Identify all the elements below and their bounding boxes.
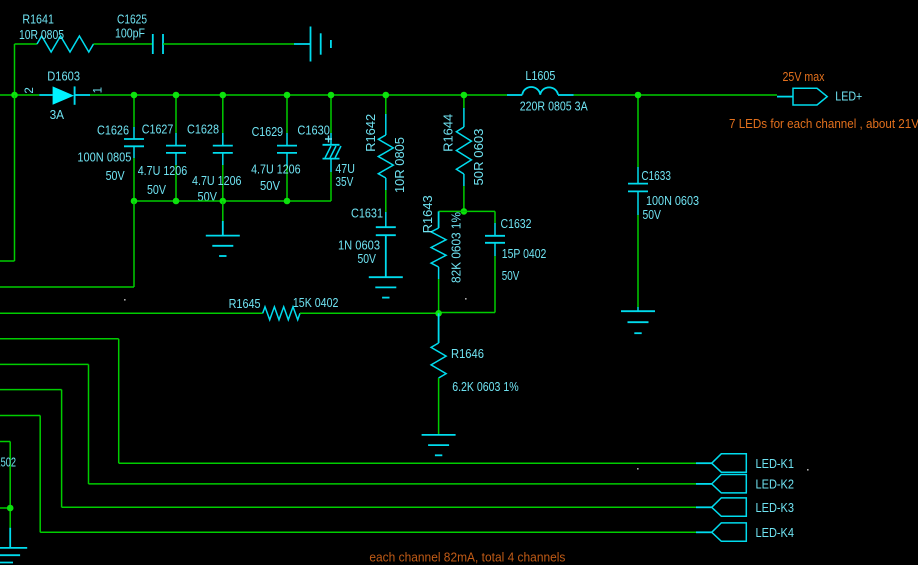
ground under C1633 [621,310,655,312]
resistor R1644 lower lead [463,174,465,186]
capacitor C1633 lower lead [637,191,639,215]
wire: channel 1 vertical [118,339,120,463]
capacitor C1631 lower lead [385,235,387,277]
svg-text:R1645: R1645 [229,297,261,311]
node bus C1633 [635,92,642,99]
svg-text:3A: 3A [50,108,65,122]
capacitor C1633 upper lead [637,95,639,167]
wire: R1641 left lead [15,43,38,45]
svg-text:82K 0603 1%: 82K 0603 1% [449,212,463,283]
svg-text:LED-K4: LED-K4 [756,525,795,540]
wire: node to R1643 [439,210,464,212]
wire: ground net vertical [9,442,11,528]
wire: main bus left edge to diode [0,94,39,96]
node bus C1627 [173,92,180,99]
svg-text:50V: 50V [260,179,281,193]
diode D1603 anode lead [39,94,52,96]
svg-text:220R 0805 3A: 220R 0805 3A [520,99,589,113]
artifact speck 1 [124,299,126,301]
resistor R1646 lower lead [438,378,440,435]
ground (sideways) for snubber [294,43,311,45]
wire: stub from edge to ground node [0,507,10,509]
wire: node to C1632 [464,210,495,212]
node bus C1626 [131,92,138,99]
wire: R1645 to node [300,312,439,314]
wire: channel 2 to port LED-K2 [89,483,697,485]
port LED+ lead [777,96,793,98]
wire: main bus diode to L1605 [90,94,507,96]
capacitor C1625 [152,34,154,54]
resistor R1644 upper lead [463,95,465,108]
svg-text:L1605: L1605 [525,69,555,83]
svg-text:35V: 35V [335,175,354,189]
svg-text:100N 0603: 100N 0603 [646,194,699,208]
capacitor C1626 upper lead [133,95,135,127]
svg-text:R1643: R1643 [421,195,435,233]
capacitor C1630 (polarized) [323,144,340,146]
wire: C1625 to ground [163,43,294,45]
capacitor C1631 [376,226,396,228]
capacitor C1627 upper lead [175,95,177,133]
node rail C1629 [284,198,291,205]
wire: channel 4 to port LED-K4 [40,531,696,533]
diode D1603 [53,86,74,104]
resistor R1642 lower lead [385,178,387,190]
wire: channel 1 from left edge [0,338,119,340]
capacitor C1630 lower lead [330,159,332,172]
node rail C1628/ground [220,198,227,205]
resistor R1646 [431,343,446,378]
capacitor C1628 lower lead [222,153,224,165]
wire: channel 2 from left edge [0,363,89,365]
svg-text:C1625: C1625 [117,13,147,27]
resistor R1645 [263,307,300,320]
svg-text:LED-K2: LED-K2 [756,477,795,492]
svg-text:15K 0402: 15K 0402 [293,296,339,310]
resistor R1643 upper lead [438,211,440,228]
svg-text:50R 0603: 50R 0603 [472,128,486,185]
inductor L1605 leads [507,94,522,96]
resistor R1646 upper lead [438,313,440,343]
capacitor C1628 [213,145,233,147]
wire: top RC snubber net, vertical from bus to R1641 [14,44,16,95]
node bus R1642 [383,92,390,99]
svg-text:1502: 1502 [0,455,16,469]
ground under C1631 [369,276,403,278]
svg-text:C1629: C1629 [252,125,284,139]
svg-text:10R 0805: 10R 0805 [19,28,64,42]
port LED-K1 lead [696,462,712,464]
port LED+ [793,88,827,105]
wire: capacitor bottom rail [134,200,331,202]
svg-text:25V max: 25V max [783,70,826,84]
wire: channel 3 to port LED-K3 [62,506,696,508]
svg-text:100pF: 100pF [115,27,145,41]
svg-text:50V: 50V [502,269,520,283]
svg-text:50V: 50V [106,169,126,183]
svg-text:C1626: C1626 [97,123,129,137]
svg-text:R1642: R1642 [364,114,378,152]
port LED-K4 [712,523,747,541]
node R1644/R1643/C1632 [461,208,468,215]
capacitor C1632 lower lead [494,243,496,256]
svg-text:D1603: D1603 [47,70,80,84]
capacitor C1629 [277,145,297,147]
wire: left vertical to edge (net exits left) [14,95,16,261]
capacitor C1627 lower lead [175,153,177,165]
capacitor C1630 upper lead [330,95,332,133]
svg-text:50V: 50V [147,183,167,197]
svg-text:1N 0603: 1N 0603 [338,238,380,252]
node rail C1627 [173,198,180,205]
resistor R1644 [456,127,471,174]
svg-text:6.2K 0603 1%: 6.2K 0603 1% [452,380,519,394]
svg-text:C1630: C1630 [297,124,330,138]
artifact speck 3 [637,468,639,470]
ground stub under rail [222,201,224,221]
svg-text:C1631: C1631 [351,206,383,220]
capacitor C1632 upper lead [494,211,496,223]
svg-text:50V: 50V [643,208,662,222]
svg-text:47U: 47U [335,162,355,176]
port LED-K1 [712,454,747,472]
port LED-K3 lead [696,506,712,508]
node bus R1644 [461,92,468,99]
port LED-K2 [712,475,747,493]
svg-text:C1628: C1628 [187,122,219,136]
resistor R1643 lower lead [438,267,440,279]
svg-text:C1627: C1627 [142,122,174,136]
capacitor C1629 lower lead [286,153,288,165]
wire: main bus L1605 to LED+ port [574,94,777,96]
svg-text:LED+: LED+ [835,89,862,104]
svg-text:R1644: R1644 [442,114,456,152]
resistor R1642 upper lead [385,95,387,114]
artifact speck 4 [807,469,809,471]
wire: R1645 net from left edge [0,312,263,314]
resistor R1643 [431,228,446,267]
wire: channel 3 vertical [61,390,63,508]
inductor L1605 [522,87,558,95]
wire: channel 3 from left edge [0,389,62,391]
svg-text:100N 0805: 100N 0805 [77,150,131,164]
capacitor C1627 [166,145,186,147]
ground bottom-left (clipped) [9,528,11,548]
svg-text:LED-K3: LED-K3 [756,500,795,515]
svg-text:1: 1 [93,87,105,93]
ground under rail [206,235,240,237]
svg-text:50V: 50V [198,190,218,204]
wire: R1641 to C1625 [94,43,153,45]
svg-text:4.7U 1206: 4.7U 1206 [138,164,188,178]
svg-text:R1646: R1646 [451,347,484,361]
svg-text:C1632: C1632 [501,217,532,231]
wire: channel 4 vertical [39,416,41,533]
ground under R1646 [422,434,456,436]
svg-text:15P 0402: 15P 0402 [502,247,547,261]
capacitor C1628 upper lead [222,95,224,133]
capacitor C1629 upper lead [286,95,288,133]
node main bus at left vertical [11,92,18,99]
capacitor C1626 lower lead [133,146,135,158]
wire: C1632 bottom to node [439,312,495,314]
wire: C1626 branch down to edge [133,201,135,287]
svg-text:C1633: C1633 [641,169,671,183]
wire: channel 1 to port LED-K1 [119,462,696,464]
node rail C1626 [131,198,138,205]
svg-text:7 LEDs for each channel , abo: 7 LEDs for each channel , about 21V [729,117,918,131]
wire: ground net from left edge [0,441,10,443]
port LED-K4 lead [696,531,712,533]
svg-text:4.7U 1206: 4.7U 1206 [192,174,242,188]
node bus C1630 [328,92,335,99]
node bus C1628 [220,92,227,99]
port LED-K2 lead [696,483,712,485]
svg-text:50V: 50V [358,252,377,266]
plus sign of C1630 [325,136,332,143]
capacitor C1626 [124,138,144,140]
node R1645/R1643/R1646 [435,310,442,317]
svg-text:each channel 82mA, total 4 ch: each channel 82mA, total 4 channels [369,551,565,565]
svg-text:10R 0805: 10R 0805 [393,137,407,193]
wire: channel 2 vertical [88,364,90,484]
resistor R1642 [378,135,393,178]
resistor R1641 [37,36,94,52]
capacitor C1632 [485,235,505,237]
wire: channel 4 from left edge [0,415,40,417]
port LED-K3 [712,498,747,516]
node ground net [7,505,14,512]
svg-text:LED-K1: LED-K1 [756,456,795,471]
svg-text:R1641: R1641 [22,13,54,27]
artifact speck 2 [465,298,467,300]
capacitor C1633 [628,183,648,185]
svg-text:2: 2 [24,87,36,93]
svg-text:4.7U 1206: 4.7U 1206 [251,162,301,176]
node bus C1629 [284,92,291,99]
